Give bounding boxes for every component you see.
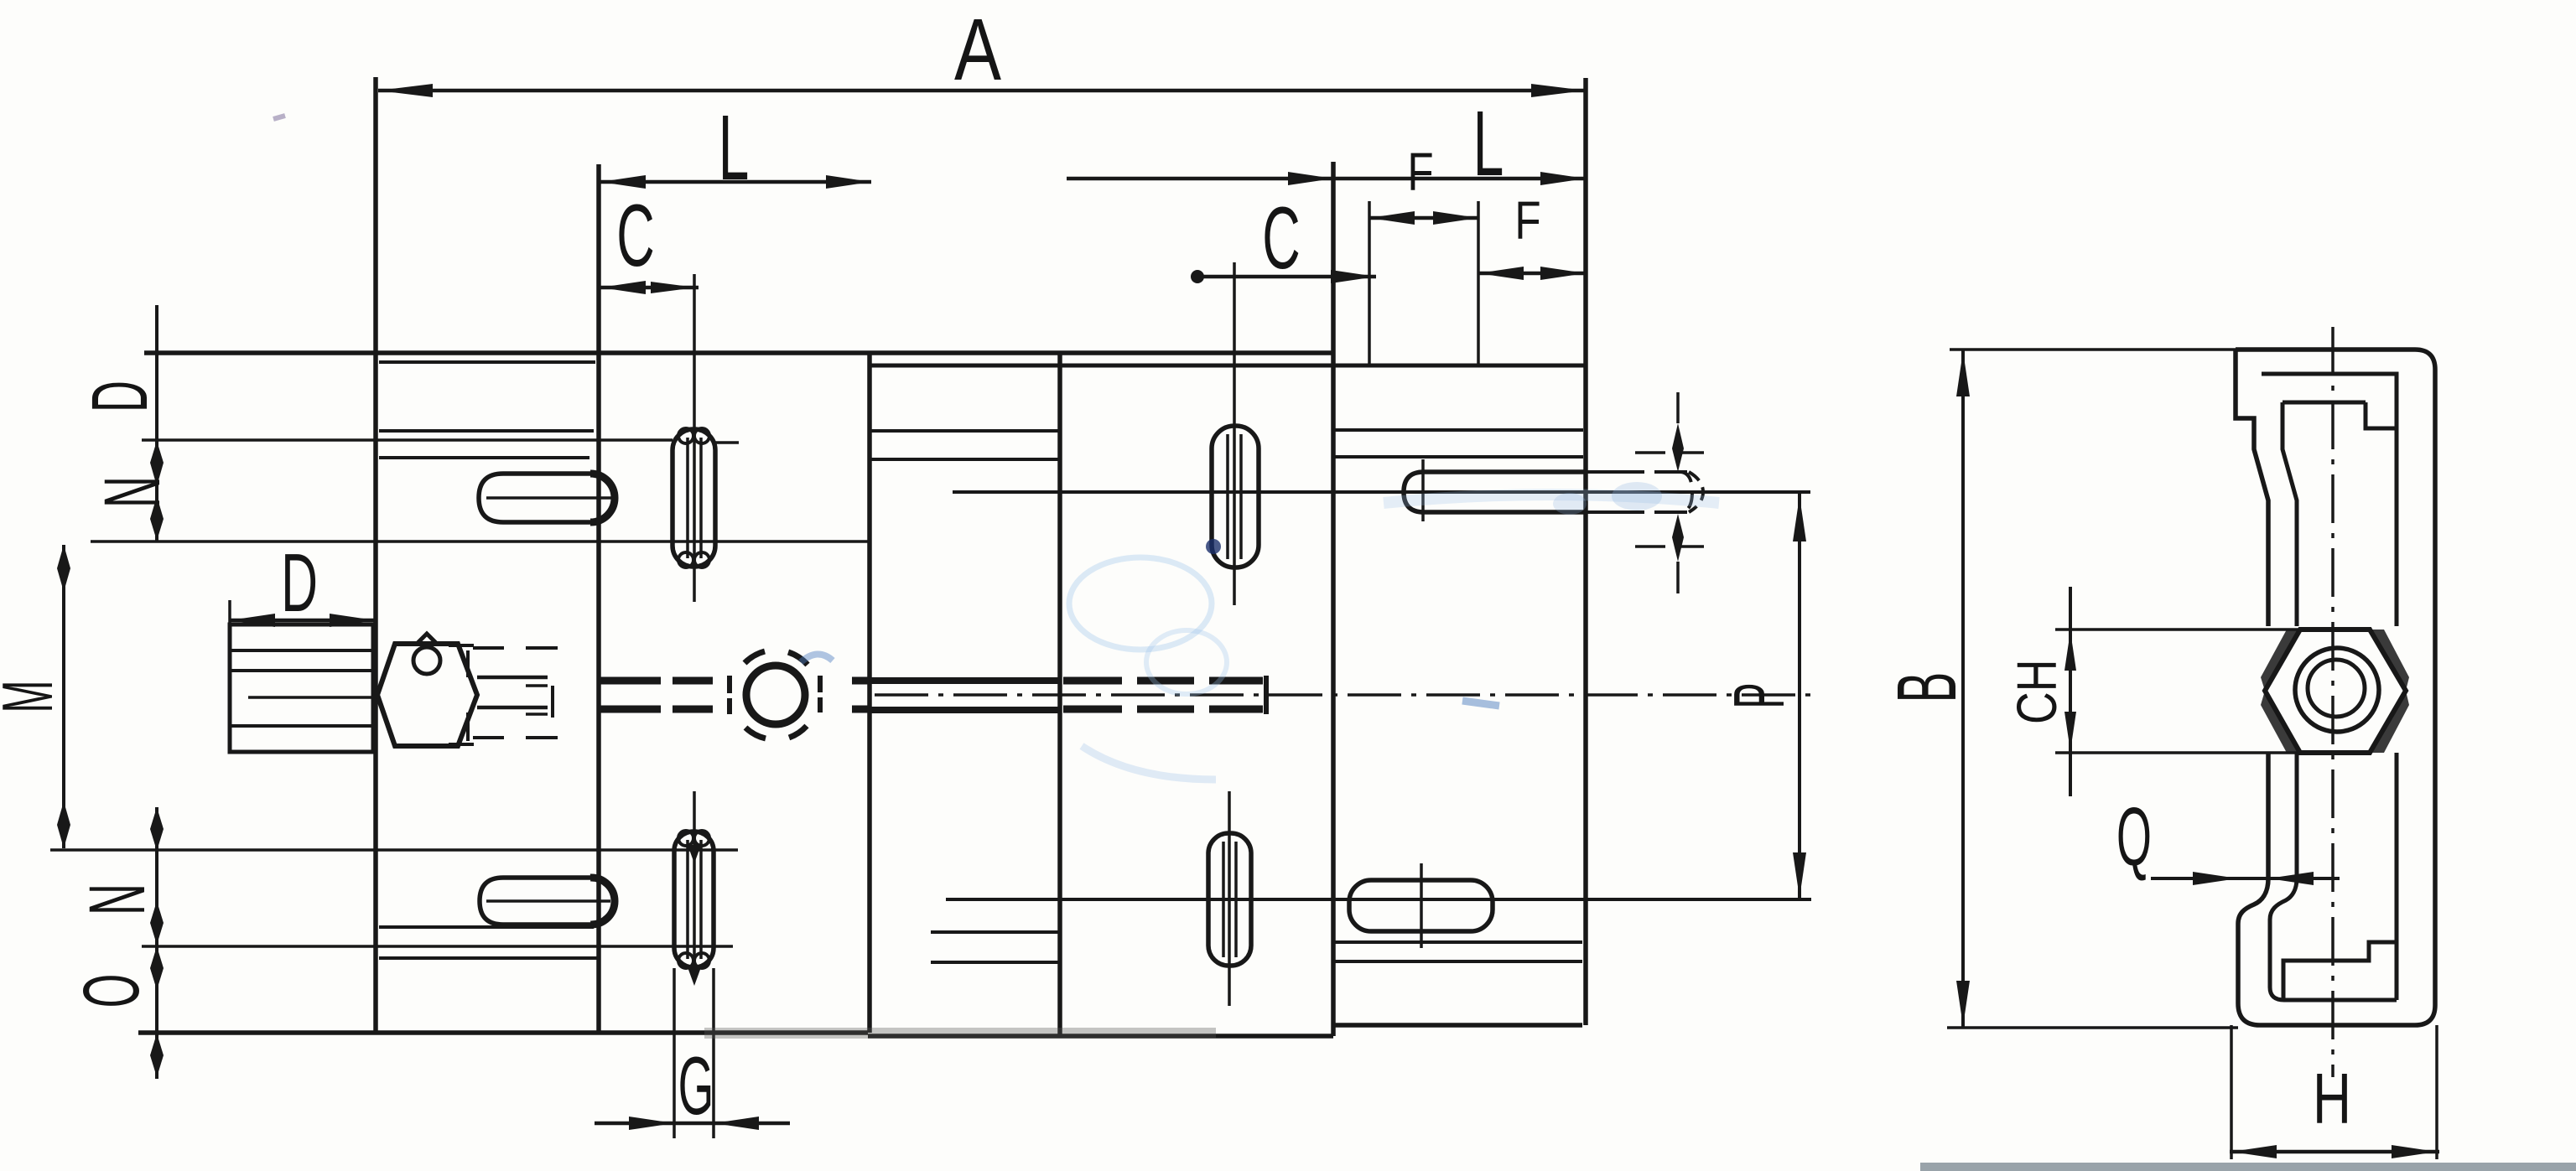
dimension O arrow upper — [150, 901, 164, 945]
horizontal slot lower left heavy cap — [590, 878, 615, 925]
screw thick dashed shaft lower row — [600, 706, 871, 713]
dimension L1 line — [600, 180, 871, 184]
dimension L2 arrow left — [1288, 172, 1333, 185]
svg-text:C: C — [1262, 190, 1300, 288]
side view outer left upper wall — [2236, 350, 2268, 626]
svg-text:N: N — [74, 883, 162, 915]
horizontal slot movable jaw lower — [1349, 880, 1493, 931]
vertical slot lower movable plate inner lines — [1223, 842, 1236, 957]
dimension B arrow top — [1956, 351, 1970, 396]
housing internal line 1 — [231, 649, 371, 652]
hidden hex nut dashed arc top-left — [745, 651, 765, 663]
dimension CH arrow bottom — [2064, 712, 2076, 751]
scan artifact blue mark under slot — [1082, 746, 1216, 780]
T-slot groove line upper left — [379, 429, 594, 433]
dimension G extension right — [712, 968, 715, 1138]
screw shaft neck bottom — [477, 706, 548, 710]
svg-text:N: N — [89, 476, 177, 508]
dimension Q arrow right — [2268, 872, 2314, 885]
extension line N-O level — [142, 945, 733, 948]
dimension B top extension — [1950, 348, 2236, 351]
side view bottom pocket step — [2283, 942, 2397, 1000]
bottom edge movable jaw — [1333, 1023, 1582, 1028]
top edge movable jaw — [870, 364, 1586, 368]
dimension L1 arrow left — [600, 175, 646, 189]
body right edge — [1583, 78, 1588, 1025]
side view inner left wall upper — [2283, 402, 2297, 626]
base plate right boundary — [1057, 353, 1062, 1036]
extension line M bottom — [50, 848, 738, 852]
scan artifact blue blob at slot crossing — [1553, 493, 1587, 515]
dimension P line — [1798, 494, 1801, 898]
dimension column D-N upper — [155, 305, 158, 541]
dimension F1 line — [1369, 216, 1478, 220]
hidden thread outline top dashes — [473, 646, 558, 650]
side view inner second contour top — [2283, 401, 2366, 405]
vertical slot lower movable plate centre extension — [1228, 791, 1231, 1006]
T-slot groove line upper middle — [870, 429, 1062, 433]
svg-text:C: C — [616, 188, 654, 285]
hidden line dashes beside collar — [449, 645, 474, 744]
dimension F1 arrow right — [1433, 211, 1478, 225]
svg-text:D: D — [76, 381, 164, 412]
T-slot groove line lower left — [379, 925, 594, 929]
svg-text:F: F — [1514, 192, 1540, 251]
svg-text:F: F — [1407, 143, 1433, 203]
dimension G arrow left — [629, 1117, 674, 1130]
screw shaft dashed in movable plate bottom — [1063, 706, 1263, 713]
side view screw outer circle — [2295, 648, 2379, 732]
svg-text:B: B — [1881, 672, 1975, 703]
dimension M arrow top — [57, 545, 70, 592]
housing internal line 2 — [231, 669, 371, 672]
dimension B line — [1961, 350, 1965, 1028]
T-slot groove line upper jaw 2 — [1333, 455, 1583, 459]
scan artifact blue smudge near opening — [1069, 557, 1212, 650]
svg-text:G: G — [678, 1039, 714, 1132]
dimension A arrow left — [378, 84, 433, 97]
housing centre line — [248, 696, 373, 699]
dimension C2 dot end — [1191, 270, 1204, 283]
svg-text:P: P — [1719, 682, 1799, 708]
dimension C1 line — [599, 286, 699, 290]
horizontal slot upper left section — [479, 474, 615, 522]
dimension CH bottom extension — [2055, 751, 2303, 754]
dimension D2 arrow right — [330, 614, 375, 627]
dimension C1 arrow right — [651, 282, 696, 293]
svg-text:L: L — [719, 97, 750, 199]
vertical slot upper movable plate centre extension — [1233, 262, 1236, 605]
bottom edge left — [138, 1030, 868, 1035]
side view hex nut fill — [2265, 630, 2406, 753]
vertical slot upper fixed plate inner lines — [688, 438, 701, 558]
screw collar top notch — [417, 634, 437, 644]
screw shaft neck top — [477, 676, 548, 680]
hidden hex nut circle in fixed plate — [746, 666, 805, 724]
dimension P arrow bottom — [1793, 852, 1806, 898]
scan artifact dark blue dot at movable slot — [1206, 539, 1221, 554]
T-slot groove line lower jaw — [1333, 940, 1582, 944]
groove stub right of upper slot — [715, 441, 739, 444]
slot width arrow upper — [1672, 423, 1684, 472]
hidden line dash vertical beside collar — [466, 650, 470, 741]
scan artifact blue smudge small circle — [1146, 630, 1227, 694]
hidden hex nut dashed arc bottom-left — [745, 728, 766, 738]
screw shaft dashed in movable plate top — [1063, 677, 1263, 685]
vertical slot lower fixed plate — [674, 832, 714, 967]
horizontal slot upper left heavy cap — [590, 474, 615, 522]
vertical slot upper movable plate inner lines — [1228, 434, 1241, 559]
scan artifact bottom right streak — [1920, 1163, 2576, 1171]
hidden hex nut side dash left — [727, 676, 732, 714]
side view inner bottom line — [2284, 998, 2397, 1003]
svg-text:A: A — [954, 1, 1002, 99]
horizontal slot movable jaw upper — [1404, 472, 1586, 512]
side view top edge — [2236, 347, 2415, 352]
dimension G arrow right — [714, 1117, 759, 1130]
dimension C2 line — [1195, 275, 1376, 279]
horizontal slot movable jaw lower centre tick — [1420, 863, 1423, 948]
side view outer right wall with corners — [2260, 350, 2435, 1025]
screw thick dashed shaft upper row — [600, 677, 871, 685]
svg-text:D: D — [281, 537, 318, 629]
side view inner contour top — [2262, 374, 2397, 626]
horizontal slot movable jaw upper hidden dashes — [1586, 472, 1687, 512]
svg-text:O: O — [68, 974, 156, 1008]
top edge of body — [144, 350, 1333, 355]
side view hex corner shade bottom-left — [2261, 691, 2300, 753]
hidden hex nut dashed arc bottom-right — [789, 726, 807, 738]
extension line M top — [91, 540, 870, 543]
side view inner right wall lower — [2395, 753, 2399, 1000]
dimension M line — [62, 545, 65, 848]
fixed jaw interface edge — [596, 164, 601, 1033]
scan artifact gray smear on bottom line — [704, 1028, 1216, 1039]
side view inner notch top right — [2366, 402, 2397, 428]
svg-text:CH: CH — [2005, 660, 2068, 724]
horizontal slot lower left mid line — [486, 899, 610, 903]
screw shaft solid through opening top — [871, 677, 1060, 684]
hidden hex nut side dash right — [818, 676, 823, 712]
dimension F1 arrow left — [1369, 211, 1415, 225]
T-slot groove line upper left 2 — [379, 456, 589, 459]
dimension B bottom extension — [1947, 1026, 2238, 1029]
vertical slot upper fixed plate — [673, 429, 715, 567]
side view hex corner shade top-right — [2370, 630, 2409, 691]
dimension column N-O lower — [155, 807, 158, 1079]
dimension CH top extension — [2055, 628, 2300, 631]
vertical slot lower fixed plate inner lines — [688, 840, 701, 959]
hidden thread end dash — [551, 686, 554, 718]
T-slot groove line upper middle 2 — [870, 458, 1062, 461]
svg-text:L: L — [1473, 93, 1504, 195]
dimension C2 arrow — [1331, 270, 1376, 283]
horizontal slot movable jaw upper centre tick — [1421, 459, 1425, 521]
dimension L2 line — [1067, 177, 1586, 181]
screw collar hexagon — [377, 644, 477, 746]
vertical slot lower fixed plate cap circles — [678, 831, 693, 846]
dimension Q arrow left — [2193, 872, 2238, 885]
dimension F2 arrow left — [1478, 267, 1524, 280]
lower slot centre line long — [946, 898, 1811, 901]
screw collar pin hole — [413, 647, 440, 674]
slot width arrow lower — [1672, 514, 1684, 562]
dimension B arrow bottom — [1956, 981, 1970, 1026]
hidden wide groove end cap — [1689, 472, 1703, 512]
horizontal slot upper left mid line — [486, 496, 611, 500]
side view screw inner circle — [2308, 660, 2365, 717]
vertical slot lower fixed plate centre extension — [693, 791, 696, 972]
dimension L2 arrow right — [1540, 172, 1586, 185]
dimension G extension left — [673, 968, 676, 1138]
hidden thread mid dashes — [526, 686, 548, 714]
body left edge — [373, 77, 378, 1033]
scan artifact blue streak along slot — [1384, 495, 1719, 503]
main horizontal centre line dash-dot — [875, 693, 1811, 697]
movable jaw plate edge — [1331, 162, 1336, 1036]
hidden wide groove dashes upper — [1635, 453, 1704, 547]
dimension D2 line — [230, 619, 375, 623]
dimension D2 arrow left — [230, 614, 275, 627]
dimension L1 arrow right — [826, 175, 871, 189]
vertical slot upper fixed plate cap circles — [678, 428, 693, 443]
dimension N arrow up — [150, 441, 164, 486]
dimension CH line — [2069, 587, 2072, 796]
side view hex nut outline — [2265, 630, 2406, 753]
horizontal slot lower left section — [480, 878, 615, 925]
T-slot groove line lower left 2 — [379, 956, 599, 960]
dimension M arrow bottom — [57, 801, 70, 848]
slot width dimension tails — [1676, 392, 1680, 593]
dimension H extension left — [2230, 1025, 2233, 1159]
top inner line left section — [379, 360, 595, 364]
dimension H extension right — [2435, 1025, 2438, 1159]
horizontal slot movable jaw upper hidden end cap — [1680, 472, 1692, 512]
small arrowhead in lower slot bottom — [688, 967, 701, 986]
side view hex corner shade top-left — [2261, 630, 2300, 691]
dimension Q line — [2151, 877, 2340, 880]
dimension O arrow lower — [150, 1034, 164, 1077]
dimension H arrow right — [2392, 1145, 2437, 1158]
hidden thread outline bottom dashes — [473, 736, 558, 739]
vertical slot upper fixed plate centre extension — [693, 274, 696, 602]
screw bearing housing — [230, 624, 373, 752]
extension line D-N level — [142, 438, 673, 442]
dimension A line — [378, 89, 1586, 93]
dimension H line — [2230, 1150, 2439, 1154]
dimension A arrow right — [1531, 84, 1586, 97]
upper slot centre line long — [953, 490, 1810, 494]
scan artifact blue blob at hidden slot end — [1612, 482, 1662, 510]
housing internal line 3 — [231, 724, 371, 728]
dimension P arrow top — [1793, 496, 1806, 541]
T-slot groove line lower jaw 2 — [1333, 960, 1582, 963]
dimension G line — [595, 1122, 790, 1126]
base plate left boundary — [867, 353, 872, 1033]
housing left edge extension — [228, 600, 231, 624]
small arrowhead in lower slot top — [688, 845, 701, 863]
hidden hex nut dashed arc top-right — [788, 652, 808, 665]
dimension CH arrow top — [2064, 631, 2076, 671]
dimension N2 arrow bottom — [150, 946, 164, 990]
scan artifact blue dash near shaft — [1462, 701, 1499, 706]
side view vertical centre line — [2331, 327, 2334, 1077]
dimension F2 arrow right — [1540, 267, 1586, 280]
dimension N arrow down — [150, 496, 164, 541]
scan artifact blue marks at hex — [801, 654, 833, 662]
svg-text:M: M — [0, 681, 68, 713]
screw shaft solid through opening bottom — [871, 707, 1060, 713]
dimension F2 line — [1478, 272, 1586, 276]
dimension C1 arrow left — [600, 281, 646, 294]
F dimension extension line — [1477, 201, 1480, 366]
screw end cap dash — [1264, 676, 1269, 714]
vertical slot upper movable plate — [1212, 426, 1259, 567]
side view hex corner shade bottom-right — [2370, 691, 2409, 753]
side view outer left lower wall with jog — [2238, 753, 2268, 1025]
movable jaw inner edge extension — [1368, 201, 1371, 366]
bottom edge middle — [868, 1034, 1333, 1039]
dimension N2 arrow top — [150, 807, 164, 851]
T-slot groove line upper jaw — [1333, 428, 1583, 432]
T-slot groove line lower middle — [931, 930, 1060, 934]
dimension H arrow left — [2231, 1145, 2277, 1158]
vertical slot lower movable plate — [1208, 833, 1251, 966]
T-slot groove line lower middle 2 — [931, 961, 1060, 964]
svg-text:Q: Q — [2116, 790, 2152, 883]
scan artifact small speck top left — [273, 116, 285, 119]
side view inner left wall lower with jog — [2270, 753, 2297, 1000]
